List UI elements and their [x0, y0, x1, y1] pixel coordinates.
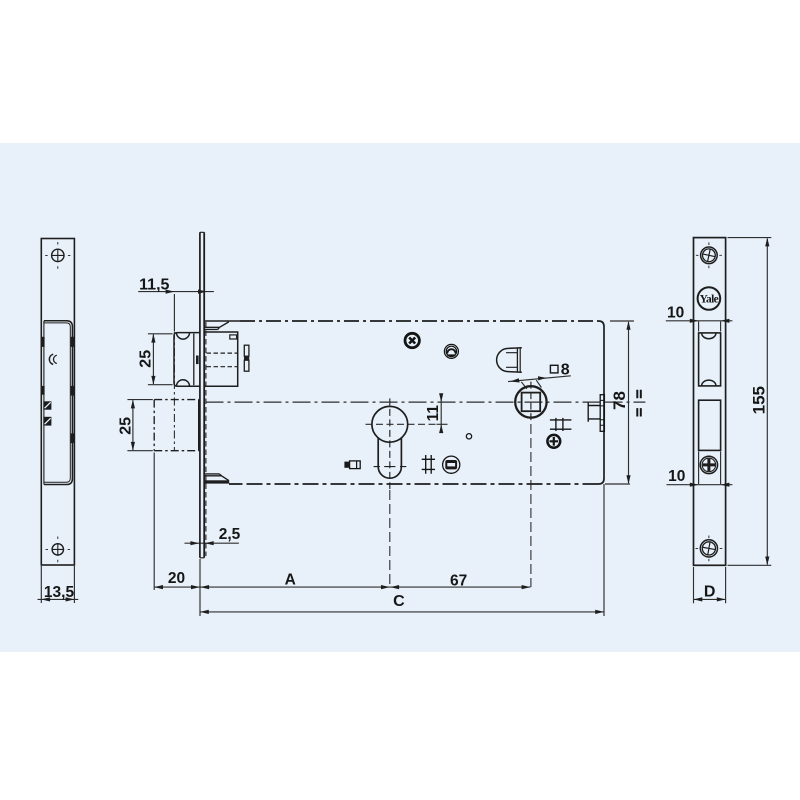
svg-text:155: 155 — [750, 386, 769, 414]
svg-text:10: 10 — [667, 305, 684, 322]
svg-text:25: 25 — [117, 417, 134, 435]
svg-text:78: 78 — [610, 391, 629, 410]
svg-text:8: 8 — [561, 362, 570, 379]
svg-text:Yale: Yale — [700, 294, 719, 306]
svg-text:C: C — [393, 593, 405, 610]
svg-text:2,5: 2,5 — [219, 526, 241, 543]
svg-text:10: 10 — [668, 468, 685, 485]
svg-text:D: D — [704, 584, 716, 601]
svg-text:A: A — [285, 571, 296, 588]
svg-text:11,5: 11,5 — [139, 276, 169, 293]
svg-text:13,5: 13,5 — [44, 584, 75, 601]
svg-text:67: 67 — [450, 573, 467, 590]
svg-text:20: 20 — [168, 570, 185, 587]
svg-text:11: 11 — [425, 405, 442, 422]
svg-text:25: 25 — [137, 350, 154, 368]
